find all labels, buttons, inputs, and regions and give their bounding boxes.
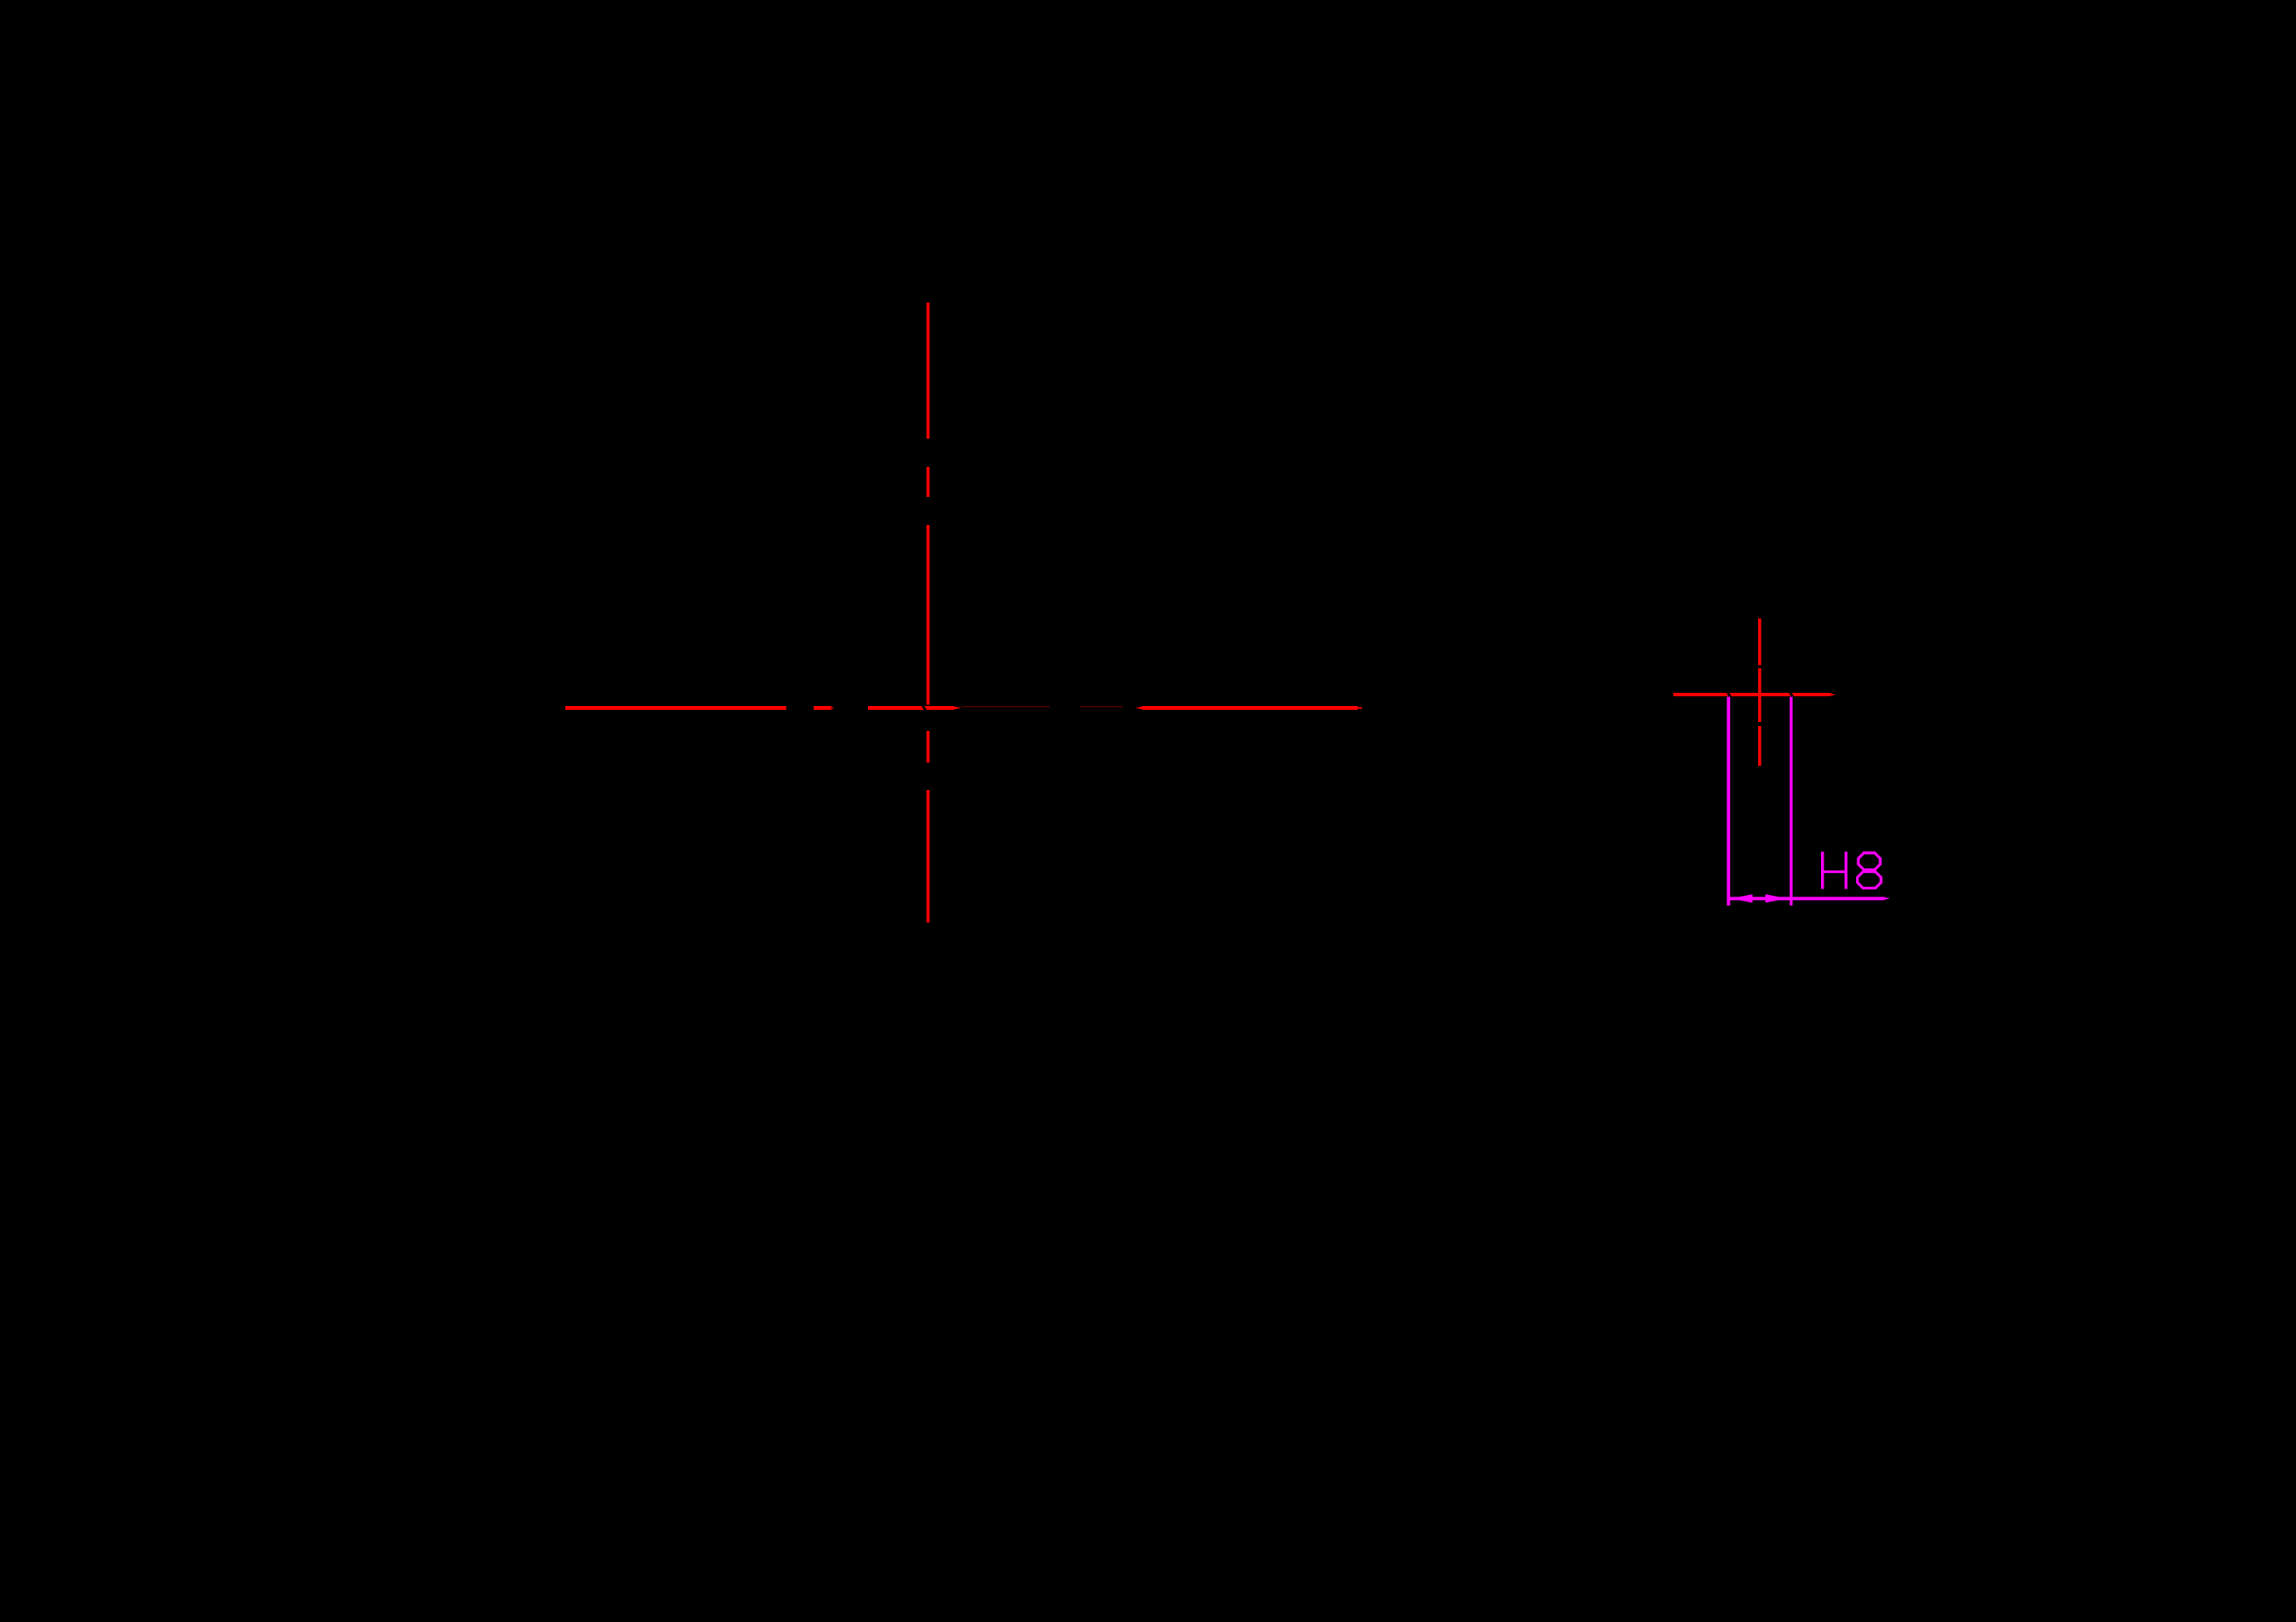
centerline main horizontal dash 2 <box>814 706 832 710</box>
centerline main horizontal dash 4 end nub <box>1358 707 1362 708</box>
small crosshair horizontal line <box>1673 693 1829 696</box>
text H left stroke <box>1821 851 1824 889</box>
centerline main horizontal dash 1 <box>565 706 787 710</box>
dimension line <box>1728 897 1883 900</box>
faint dark centerline segment 2 <box>1080 706 1123 708</box>
dimension extension line left <box>1727 697 1730 906</box>
black notch at right circle crossing <box>1789 692 1794 696</box>
dimension arrow left <box>1731 894 1753 903</box>
black notch at main center crossing <box>921 706 927 711</box>
dimension arrow right <box>1765 894 1787 903</box>
small crosshair vertical dash 2 <box>1758 668 1761 722</box>
dimension extension line right <box>1790 697 1793 906</box>
centerline main vertical dash 1 <box>926 303 930 439</box>
black notch at left circle crossing <box>1727 692 1732 696</box>
centerline main vertical dash 2 <box>926 467 930 497</box>
centerline main horizontal dash 4 taper start <box>1135 706 1144 710</box>
text H right stroke <box>1845 851 1848 889</box>
centerline main vertical dash 3 <box>926 525 930 705</box>
centerline main vertical dash 4 <box>926 731 930 763</box>
small crosshair vertical dash 3 <box>1758 726 1761 766</box>
centerline main vertical dash 5 <box>926 790 930 922</box>
small crosshair vertical dash 1 <box>1758 619 1761 666</box>
centerline main horizontal dash 2 nub <box>832 708 834 709</box>
small crosshair horizontal right taper <box>1829 693 1836 696</box>
dimension line right taper <box>1883 897 1890 900</box>
text H crossbar <box>1821 871 1848 873</box>
centerline main horizontal dash 3 taper end <box>953 706 962 710</box>
text 8 bottom octagon <box>1857 872 1881 888</box>
text 8 top octagon <box>1858 853 1880 870</box>
faint dark centerline segment 1 <box>962 706 1051 708</box>
centerline main horizontal dash 3 <box>868 706 953 710</box>
centerline main horizontal dash 4 <box>1144 706 1358 710</box>
